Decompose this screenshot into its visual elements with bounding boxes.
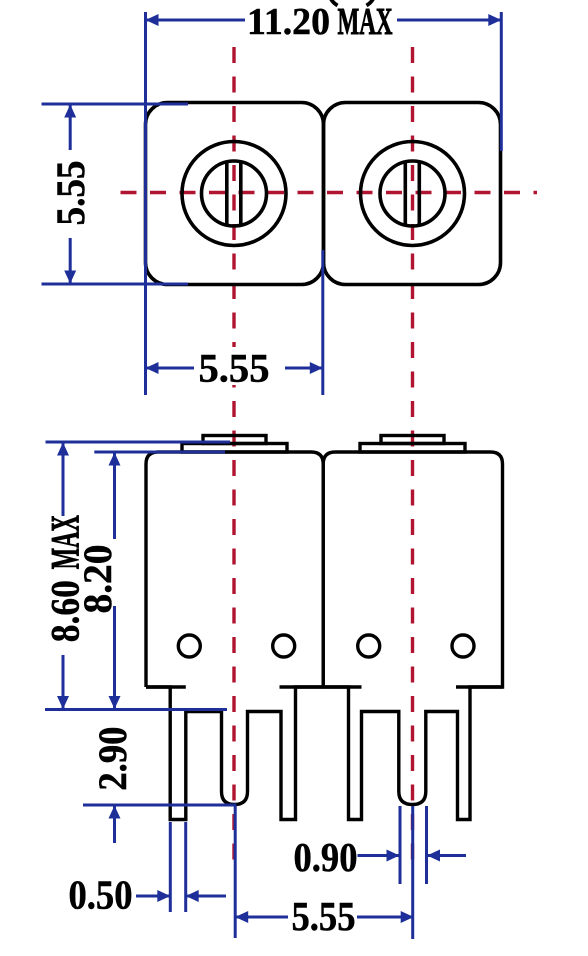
square body 1 (top view) <box>146 103 324 285</box>
dim 11.20 MAX: dimension line <box>146 19 246 22</box>
svg-text:11.20: 11.20 <box>247 1 330 43</box>
cropped parentheses tips of title above <box>329 0 375 6</box>
svg-text:5.55: 5.55 <box>199 346 270 391</box>
dim 5.55 left: extension lines <box>42 103 189 106</box>
hole circle 4 <box>452 635 474 657</box>
body2 narrow top flange <box>381 436 444 444</box>
svg-text:8.20: 8.20 <box>75 545 120 614</box>
dim 8.60 MAX: dimension line <box>62 442 65 516</box>
dim 0.90: dimension line with outside arrows <box>358 854 400 857</box>
body1 narrow top flange <box>203 436 266 444</box>
dim 11.20 MAX: extension line left <box>144 12 147 395</box>
dim 5.55 (top view width): dimension line <box>146 367 195 370</box>
dim 8.20: dimension line <box>113 452 116 539</box>
vertical centerline body2 <box>411 47 414 869</box>
body 2 outline (front view) <box>323 452 502 820</box>
dim 5.55 bottom: extension lines (terminal centers) <box>234 806 237 938</box>
TOP VIEW <box>146 103 501 285</box>
body1 wide top flange <box>182 444 287 453</box>
dim 5.55 left: dimension line <box>69 104 72 150</box>
screw slot body1 <box>225 162 229 226</box>
shared bottom extension line (seating plane) <box>45 708 227 711</box>
rotor outer circle body1 <box>182 142 286 246</box>
dim 8.20: extension line top <box>94 451 225 454</box>
DIMENSION TEXT <box>42 1 392 939</box>
hole circle 2 <box>273 635 295 657</box>
svg-text:0.90: 0.90 <box>294 834 358 880</box>
body2 bottom edge across pin4 <box>456 685 503 688</box>
svg-text:5.55: 5.55 <box>48 161 93 226</box>
red centerlines <box>107 47 537 869</box>
dim 5.55 (top view width): extension line right <box>321 250 324 395</box>
dim 0.90: extension lines <box>399 806 402 884</box>
dim 8.60 MAX: extension line top <box>46 441 231 444</box>
dim 5.55 bottom: dimension line <box>236 916 288 919</box>
rotor outer circle body2 <box>361 142 465 246</box>
svg-text:MAX: MAX <box>338 1 393 43</box>
square body 2 (top view) <box>324 103 501 285</box>
FRONT VIEW <box>146 436 503 820</box>
svg-text:5.55: 5.55 <box>292 893 356 939</box>
dim 2.90: extension line at tab bottom <box>83 804 237 807</box>
body1 bottom edge across pin2 <box>280 685 324 688</box>
body1 bottom edge across pin1 <box>146 685 186 688</box>
dim 2.90: lower arrow line <box>113 805 116 843</box>
dim 0.50: dimension line with outside arrows <box>136 895 170 898</box>
svg-text:0.50: 0.50 <box>69 872 133 918</box>
vertical centerline body1 <box>232 47 235 347</box>
horizontal centerline top view <box>107 191 537 194</box>
screw slot body2 <box>403 162 407 226</box>
svg-text:2.90: 2.90 <box>90 727 135 791</box>
dim 11.20 MAX: extension line right <box>500 12 503 151</box>
rotor inner circle body1 <box>202 161 267 226</box>
body2 wide top flange <box>360 444 465 453</box>
dim 0.50: extension lines <box>169 822 172 912</box>
rotor inner circle body2 <box>380 161 445 226</box>
hole circle 1 <box>178 635 200 657</box>
hole circle 3 <box>358 635 380 657</box>
body2 bottom edge across pin3 <box>323 685 361 688</box>
body 1 outline (front view) <box>146 452 323 820</box>
BLUE DIMENSIONS <box>42 12 502 939</box>
